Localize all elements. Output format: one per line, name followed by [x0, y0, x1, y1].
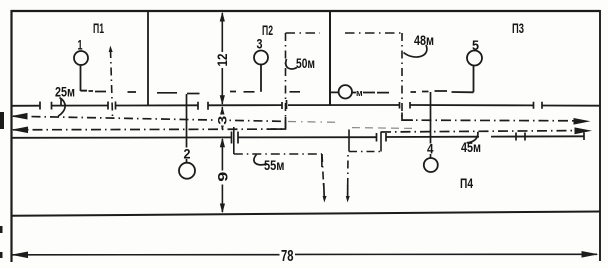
arrow dim12 top	[220, 12, 225, 22]
dimension 3 line	[221, 107, 223, 130]
svg-text:П1: П1	[93, 20, 104, 36]
svg-text:4: 4	[427, 141, 434, 157]
wire street bottom edge ticks	[12, 132, 585, 145]
arrow small branch x324 bottom	[323, 196, 327, 203]
svg-text:48м: 48м	[414, 32, 434, 48]
svg-text:12: 12	[214, 53, 230, 66]
wire lamp 1 stem	[81, 65, 88, 91]
arrow dim3 top	[220, 106, 225, 116]
wire building dashed line segments	[81, 91, 448, 93]
wire 55m branch down to arrow	[322, 154, 324, 186]
wire x348 loop left vertical	[348, 130, 350, 152]
arrow feeder1 right	[574, 118, 591, 125]
arrow dim78 right	[582, 251, 599, 258]
dimension 9 line	[221, 139, 223, 212]
arrow dim9 bottom	[220, 204, 225, 214]
label lamp4 number	[427, 141, 435, 157]
scan smudge left middle	[0, 112, 4, 129]
wire top border	[11, 10, 601, 12]
svg-text:78: 78	[281, 248, 294, 265]
svg-text:3: 3	[216, 115, 230, 124]
svg-text:5: 5	[472, 37, 479, 53]
node branch x111 vertical	[111, 50, 113, 116]
wire 55m branch horizontal	[234, 153, 322, 155]
wire divider P2/P3	[329, 11, 331, 105]
arrow feeder2 right	[575, 127, 593, 134]
arrow dim9 top	[220, 138, 225, 148]
svg-text:9: 9	[215, 172, 231, 182]
node branch x402 vertical	[401, 33, 403, 120]
scan smudge left lower	[0, 226, 3, 233]
arrow dim78 left	[11, 252, 28, 259]
lamp 2 circle	[179, 163, 195, 179]
arrow dim3 bottom	[220, 121, 225, 131]
svg-text:П3: П3	[512, 20, 524, 36]
svg-text:П4: П4	[460, 175, 473, 191]
arrow feeder1 left	[11, 113, 28, 120]
wire left border	[10, 10, 12, 262]
wire feeder line 1 right	[402, 119, 574, 122]
leader curve 25m	[58, 98, 65, 117]
wire solid corner at feeder2 junction x285	[271, 117, 286, 129]
lamp 3 circle	[254, 51, 268, 65]
arrow dim12 bottom	[220, 95, 225, 105]
wire 55m branch vertical from feeder2	[233, 127, 235, 154]
wire lamp2 drop line	[186, 94, 188, 163]
wire feeder line 1 left	[13, 116, 286, 121]
wire feeder line 2 left	[13, 128, 286, 131]
wire lamp2 corner at building line	[187, 93, 200, 95]
wire dash-dot top horizontal y33	[286, 32, 403, 34]
wire solid corner 55m branch x322	[321, 154, 323, 167]
arrow small branch x347 bottom	[346, 196, 350, 203]
wire feeder line 2 faint middle	[352, 127, 412, 130]
wire street top edge	[12, 104, 601, 107]
label dim 3 rotated	[216, 115, 230, 126]
wire street top edge ticks	[40, 99, 542, 110]
svg-text:П2: П2	[262, 22, 273, 38]
label lamp2 number	[183, 146, 192, 162]
svg-text:55м: 55м	[264, 157, 285, 173]
wire lamp 3 stem	[260, 65, 262, 92]
svg-text:50м: 50м	[296, 55, 315, 71]
wire lamp 5 stem	[452, 66, 474, 93]
arrow feeder2 left	[11, 127, 28, 134]
label dim 9 rotated	[215, 171, 231, 185]
svg-text:2: 2	[184, 146, 191, 162]
svg-text:3: 3	[257, 36, 263, 52]
wire bottom border	[12, 212, 601, 216]
wire x381 loop right vertical	[380, 132, 382, 152]
dimension 78 line	[12, 253, 598, 256]
lamp 1 circle	[74, 51, 88, 65]
wire divider P1/P2	[147, 11, 149, 106]
svg-text:25м: 25м	[55, 84, 75, 100]
dimension 12 line	[221, 13, 223, 104]
leader curve 45m	[467, 132, 478, 143]
arrow small branch x111 top	[109, 46, 113, 53]
wire street bottom edge	[12, 136, 585, 138]
wire right border	[599, 10, 601, 261]
leader curve 55m	[254, 155, 267, 165]
wire x348 branch down to arrow	[347, 155, 349, 186]
wire feeder line 2 right	[381, 131, 575, 132]
wire solid corner at feeder1 junction x402	[402, 113, 413, 121]
wire x348 loop horizontal	[349, 151, 381, 153]
svg-text:45м: 45м	[461, 139, 481, 155]
wire lamp4 drop line	[430, 92, 432, 158]
lamp 2m circle	[339, 85, 352, 98]
wire lamp 2m horizontal line	[330, 91, 389, 93]
label dim 12 rotated	[214, 52, 230, 68]
wire feeder line 1 faint middle	[288, 121, 338, 124]
svg-text:м: м	[356, 88, 363, 98]
leader curve 48m	[404, 45, 427, 57]
leader curve 50m	[286, 59, 297, 69]
scan smudge left dim	[0, 252, 3, 258]
svg-text:1: 1	[78, 37, 83, 53]
lamp 5 circle	[467, 51, 482, 66]
node branch x285 vertical	[285, 33, 287, 129]
lamp 4 circle	[424, 158, 438, 172]
